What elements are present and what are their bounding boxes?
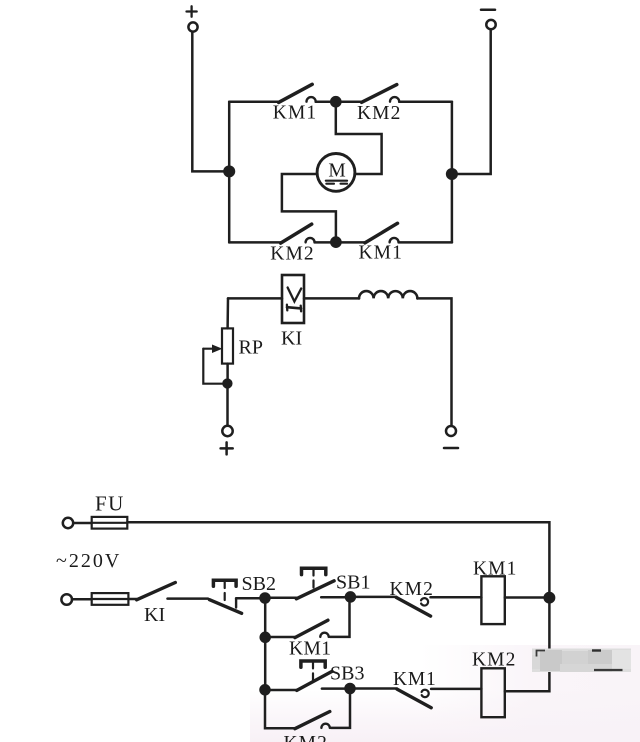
wire: node C to SB1 xyxy=(265,597,296,600)
wire: top rail right of KM2 xyxy=(399,100,452,103)
pushbutton SB1 (NO start forward) xyxy=(296,568,334,599)
wire: right rail down to KM2 coil output xyxy=(505,598,550,692)
plus terminal (middle section) xyxy=(221,426,233,455)
contact KM2 (top right, NO) xyxy=(362,85,400,103)
wire: top rail between node A and KM2 xyxy=(336,100,362,103)
svg-text:M: M xyxy=(328,161,345,182)
pushbutton SB3 (NO start reverse) xyxy=(297,661,332,690)
svg-text:KM2: KM2 xyxy=(390,579,434,600)
wire from - terminal down and left to loop xyxy=(455,30,491,175)
watermark smudge xyxy=(532,649,631,673)
svg-text:KM1: KM1 xyxy=(273,103,317,124)
svg-text:KM1: KM1 xyxy=(359,243,403,264)
wire: node H to KM1 break contact xyxy=(350,687,397,690)
wire: node F down to rung 2 xyxy=(264,637,267,690)
svg-text:KM2: KM2 xyxy=(270,244,314,265)
wire: KM2 contact to KM1 coil xyxy=(431,596,482,599)
contact KM2 (NC interlock, rung 1) xyxy=(396,598,430,617)
node: + feed junction on left loop edge xyxy=(224,167,234,177)
plus terminal (top left) xyxy=(187,6,198,31)
dark remnant strokes inside smudge xyxy=(537,651,546,657)
wire: SB2 to node C xyxy=(236,597,265,600)
wire: junction down to plus terminal xyxy=(226,384,229,426)
wire: node F to KM1 self-hold contact xyxy=(265,636,295,639)
wire: node A down to motor right terminal (Z path) xyxy=(336,102,382,174)
wire: top rail segment left xyxy=(229,100,278,103)
svg-text:KI: KI xyxy=(281,328,302,350)
wire: fuse 2 to KI contact xyxy=(128,598,136,601)
fuse FU xyxy=(92,517,128,529)
svg-text:SB3: SB3 xyxy=(330,663,364,685)
contact KM1 (NO self-holding) xyxy=(295,620,329,637)
wire from + terminal down and right to loop xyxy=(192,32,225,172)
relay coil box KI (current relay) xyxy=(282,275,304,323)
wire: bottom rail between KM2 and node B xyxy=(315,241,336,244)
wire: KM1 coil to right rail xyxy=(505,596,550,599)
minus terminal (middle section) xyxy=(444,426,458,448)
svg-text:SB1: SB1 xyxy=(336,572,370,594)
svg-text:KM2: KM2 xyxy=(284,733,328,742)
inductor L (smoothing reactor) xyxy=(359,291,417,298)
node D (junction after SB1) xyxy=(346,592,355,601)
node: - feed junction on right loop edge xyxy=(447,169,457,179)
svg-text:KM1: KM1 xyxy=(473,559,517,580)
wire: top rail between KM1 and node A xyxy=(316,100,336,103)
svg-text:RP: RP xyxy=(239,337,263,359)
node F (KM1 self-hold junction) xyxy=(261,633,270,642)
wire: KM1 contact to KM2 coil xyxy=(431,688,481,691)
contact KM1 (top left, NO) xyxy=(279,84,316,102)
node H (junction after SB3) xyxy=(346,684,355,693)
rheostat RP xyxy=(203,328,233,383)
svg-text:KM2: KM2 xyxy=(357,103,401,124)
node: RP wiper junction xyxy=(224,380,232,388)
wire: bottom rail right of KM1 xyxy=(399,241,452,244)
wire: KI contact to SB2 xyxy=(168,597,209,600)
contact KI (current relay NO contact) xyxy=(137,583,176,600)
svg-text:KM2: KM2 xyxy=(472,650,516,671)
svg-text:SB2: SB2 xyxy=(242,573,276,595)
contact KM2 (NO self-holding, bottom) xyxy=(295,712,330,729)
wire: bottom rail segment left xyxy=(229,241,281,244)
wire: SB3 right contact to node H xyxy=(322,687,350,690)
wire: node D to KM2 break contact xyxy=(350,596,396,599)
wire: left corner down to RP xyxy=(226,298,229,328)
node E (right rail junction) xyxy=(545,593,554,602)
terminal circle (L1, control top) xyxy=(63,518,73,528)
node A (top center junction) xyxy=(331,97,340,106)
pushbutton SB2 (NC stop) xyxy=(210,580,242,613)
node B (bottom center junction) xyxy=(331,238,340,247)
wire: terminal to fuse FU xyxy=(73,522,91,525)
coil KM2 xyxy=(481,668,504,717)
svg-text:~220V: ~220V xyxy=(56,550,121,572)
terminal circle (L2, control bottom) xyxy=(61,594,72,605)
wire: loop right vertical xyxy=(451,102,454,243)
wire: inductor to right, down to minus terminal xyxy=(417,298,451,425)
svg-text:KI: KI xyxy=(144,604,165,626)
minus terminal (top right) xyxy=(481,10,496,30)
contact KM1 (NC interlock, rung 2) xyxy=(397,689,431,708)
wire: top control rail to right rail xyxy=(127,522,549,597)
wire: terminal to fuse 2 xyxy=(72,598,92,601)
wire: node G to SB3 xyxy=(265,689,297,692)
wire: bottom rail between node B and KM1 xyxy=(336,241,365,244)
wire: loop left vertical xyxy=(228,102,231,243)
node G (rung 2 left junction) xyxy=(261,685,270,694)
contact KM1 (bottom right, NO) xyxy=(365,223,399,243)
wire: node C down to self-hold branch xyxy=(264,598,267,637)
motor M1 xyxy=(317,154,355,192)
wire: KM2 self-hold to node H xyxy=(331,689,350,728)
svg-text:KM1: KM1 xyxy=(289,639,331,660)
wire: SB1 right contact to node D xyxy=(321,596,350,599)
coil KM1 xyxy=(481,576,504,624)
wire: motor left terminal to node B (Z path) xyxy=(282,174,336,242)
svg-text:KM1: KM1 xyxy=(393,669,437,690)
wire: RP bottom to wiper junction xyxy=(226,364,229,384)
fuse FU2 xyxy=(92,593,129,605)
svg-text:FU: FU xyxy=(95,492,125,516)
wire: middle rail left of KI xyxy=(228,297,282,300)
node C (junction after SB2) xyxy=(261,594,270,603)
wire: KI box to inductor xyxy=(304,297,359,300)
wire: node G down to KM2 self-hold branch xyxy=(265,690,295,729)
wire: KM1 self-hold to node D xyxy=(330,597,350,637)
contact KM2 (bottom left, NO) xyxy=(281,224,315,243)
